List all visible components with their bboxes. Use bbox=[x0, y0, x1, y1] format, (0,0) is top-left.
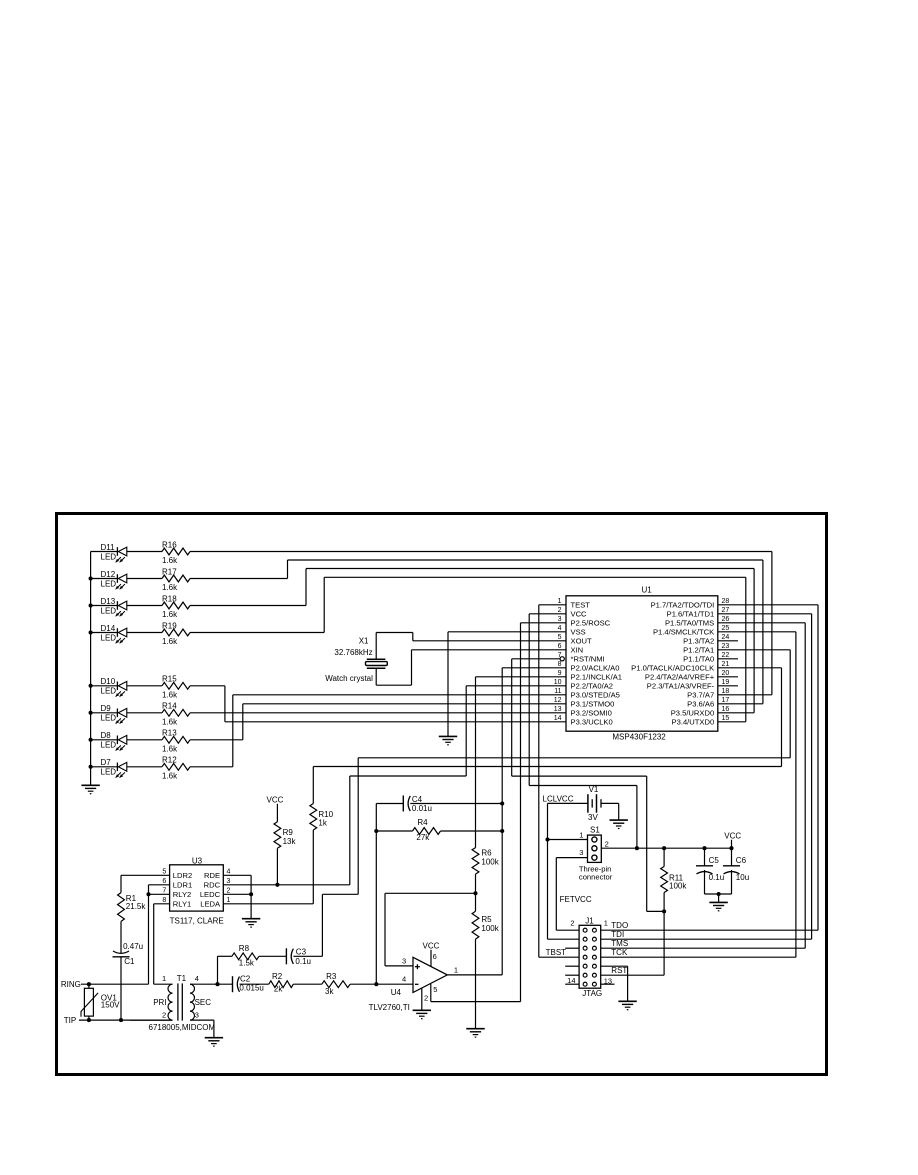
junction LCLVCC S1 pin1 bbox=[545, 837, 549, 841]
pin 22 stub bbox=[718, 658, 738, 660]
svg-text:VSS: VSS bbox=[571, 628, 586, 637]
node LED cathode bus bbox=[90, 552, 92, 786]
resistor R14 1.6k bbox=[127, 702, 190, 727]
svg-text:6: 6 bbox=[433, 952, 437, 961]
resistor R9 13k bbox=[274, 822, 296, 849]
wire RST pin7 to R11/RST net bbox=[512, 659, 664, 912]
svg-text:U1: U1 bbox=[642, 586, 653, 595]
wire caps to ground bbox=[718, 894, 720, 902]
junction C5 C6 ground bbox=[717, 892, 721, 896]
wire D13 row to pin 16 bbox=[190, 569, 754, 713]
svg-text:2: 2 bbox=[227, 888, 231, 895]
svg-text:C1: C1 bbox=[124, 957, 135, 966]
resistor R4 27k bbox=[376, 818, 502, 842]
junction C4 output node bbox=[500, 801, 504, 805]
wire C5 C6 bottoms bbox=[705, 893, 732, 895]
svg-text:1.6k: 1.6k bbox=[162, 772, 178, 781]
svg-text:25: 25 bbox=[722, 625, 730, 632]
junction LDR1 RLY2 bbox=[146, 892, 150, 896]
junction LED bus bbox=[89, 684, 93, 688]
svg-text:8: 8 bbox=[558, 661, 562, 668]
wire D11 row to pin 18 bbox=[190, 552, 772, 695]
svg-text:1.5k: 1.5k bbox=[239, 959, 255, 968]
svg-text:1.6k: 1.6k bbox=[162, 583, 178, 592]
wire LEDA to R10 bbox=[223, 903, 313, 905]
wire SEC top to C2 node bbox=[190, 983, 233, 985]
svg-text:3: 3 bbox=[227, 878, 231, 885]
svg-text:4: 4 bbox=[195, 974, 199, 983]
svg-text:LEDC: LEDC bbox=[200, 890, 221, 899]
junction R6 R5 plus node bbox=[473, 891, 477, 895]
junction R11 top bbox=[662, 846, 666, 850]
wire D9 row to pin 13 bbox=[190, 712, 566, 714]
optocoupler U3 TS117 bbox=[162, 857, 230, 926]
wire P2.0 pin8 to opamp output node bbox=[502, 668, 566, 975]
svg-text:5: 5 bbox=[433, 985, 437, 994]
svg-text:P1.0/TACLK/ADC10CLK: P1.0/TACLK/ADC10CLK bbox=[631, 664, 714, 673]
junction RING OV1 bbox=[87, 982, 91, 986]
capacitor C6 10u bbox=[723, 848, 749, 894]
svg-text:TEST: TEST bbox=[571, 601, 591, 610]
junction C1 TIP bbox=[119, 1018, 123, 1022]
svg-text:R8: R8 bbox=[239, 944, 250, 953]
svg-text:3k: 3k bbox=[325, 987, 334, 996]
svg-text:P2.1/INCLK/A1: P2.1/INCLK/A1 bbox=[571, 673, 623, 682]
ground battery bbox=[610, 820, 628, 828]
svg-text:R13: R13 bbox=[162, 729, 177, 738]
svg-text:13k: 13k bbox=[283, 837, 297, 846]
svg-text:5: 5 bbox=[558, 634, 562, 641]
svg-text:1: 1 bbox=[162, 974, 166, 983]
frame border bbox=[57, 514, 827, 1075]
resistor R6 100k bbox=[472, 848, 500, 875]
svg-text:SEC: SEC bbox=[195, 998, 212, 1007]
ground C5 C6 bbox=[709, 902, 727, 910]
J1 stub left row6 bbox=[565, 974, 579, 976]
svg-text:D13: D13 bbox=[101, 597, 116, 606]
LED D8 bbox=[91, 731, 127, 751]
wire S1 pin1 bbox=[548, 839, 588, 841]
battery V1 3V bbox=[548, 785, 619, 822]
junction LED bus bbox=[89, 711, 93, 715]
wire J1 row5 to ground bbox=[601, 966, 628, 1001]
wire D7 row to pin 11 bbox=[190, 695, 566, 767]
wire VSS pin 4 to ground bbox=[448, 632, 566, 736]
svg-text:R17: R17 bbox=[162, 567, 177, 576]
wire R6 to R5 bbox=[475, 874, 477, 911]
svg-text:27: 27 bbox=[722, 607, 730, 614]
svg-text:1: 1 bbox=[579, 831, 583, 840]
svg-text:PRI: PRI bbox=[153, 998, 166, 1007]
svg-text:27k: 27k bbox=[416, 833, 430, 842]
svg-text:8: 8 bbox=[162, 897, 166, 904]
svg-text:22: 22 bbox=[722, 652, 730, 659]
svg-text:TMS: TMS bbox=[611, 939, 628, 948]
terminal RING bbox=[61, 980, 149, 989]
wire R5 to ground bbox=[475, 939, 477, 1028]
LED D11 bbox=[91, 543, 127, 563]
svg-text:JTAG: JTAG bbox=[582, 989, 602, 998]
svg-text:20: 20 bbox=[722, 670, 730, 677]
svg-text:10u: 10u bbox=[736, 873, 749, 882]
svg-text:P1.6/TA1/TD1: P1.6/TA1/TD1 bbox=[667, 610, 715, 619]
svg-text:R12: R12 bbox=[162, 756, 177, 765]
svg-text:100k: 100k bbox=[481, 857, 499, 866]
label RST bbox=[611, 966, 627, 975]
wire LCLVCC to J1 pin4 bbox=[548, 803, 580, 939]
pin 20 stub bbox=[718, 676, 738, 678]
wire P2.2 pin10 to U3 RDC bbox=[350, 686, 566, 885]
svg-text:P1.1/TA0: P1.1/TA0 bbox=[683, 655, 714, 664]
wire crystal to XOUT pin 5 bbox=[376, 633, 566, 660]
LED D12 bbox=[91, 570, 127, 590]
wire D14 row to pin 15 bbox=[190, 577, 746, 722]
svg-text:LEDA: LEDA bbox=[200, 900, 221, 909]
junction C6 top VCC bbox=[729, 846, 733, 850]
svg-text:D11: D11 bbox=[101, 543, 116, 552]
svg-text:C2: C2 bbox=[240, 974, 251, 983]
capacitor C4 0.01u bbox=[376, 795, 502, 813]
svg-text:3: 3 bbox=[579, 848, 583, 857]
svg-text:TBST: TBST bbox=[546, 948, 567, 957]
svg-text:VCC: VCC bbox=[571, 610, 588, 619]
svg-text:C5: C5 bbox=[709, 856, 720, 865]
svg-text:1.6k: 1.6k bbox=[162, 718, 178, 727]
junction feedback node bbox=[374, 982, 378, 986]
svg-text:R6: R6 bbox=[481, 848, 492, 857]
resistor R1 21.5k bbox=[118, 893, 147, 922]
svg-text:D7: D7 bbox=[101, 758, 112, 767]
svg-text:0.47u: 0.47u bbox=[123, 942, 143, 951]
svg-text:LDR1: LDR1 bbox=[173, 881, 192, 890]
svg-text:0.1u: 0.1u bbox=[295, 957, 311, 966]
J1 stub left row5 bbox=[565, 965, 579, 967]
svg-text:R15: R15 bbox=[162, 675, 177, 684]
wire opamp output bbox=[447, 974, 502, 976]
wire opamp pin5 to ROSC riser bbox=[431, 984, 521, 1002]
svg-text:LED: LED bbox=[101, 714, 117, 723]
resistor R15 1.6k bbox=[127, 675, 190, 700]
svg-text:R18: R18 bbox=[162, 594, 177, 603]
wire R9 to RDC bbox=[276, 848, 278, 885]
svg-text:X1: X1 bbox=[359, 637, 369, 646]
svg-text:6: 6 bbox=[558, 643, 562, 650]
svg-text:P3.2/SOMI0: P3.2/SOMI0 bbox=[571, 709, 612, 718]
resistor R3 3k bbox=[322, 972, 350, 996]
svg-text:D14: D14 bbox=[101, 624, 116, 633]
svg-text:TLV2760,TI: TLV2760,TI bbox=[369, 1003, 410, 1012]
svg-text:P3.3/UCLK0: P3.3/UCLK0 bbox=[571, 718, 613, 727]
label TDI bbox=[611, 930, 624, 939]
op-amp U4 TLV2760 bbox=[369, 952, 458, 1012]
svg-text:VCC: VCC bbox=[267, 796, 284, 805]
junction LED bus bbox=[89, 630, 93, 634]
varistor OV1 150V bbox=[81, 984, 120, 1020]
wire PRI bottom to TIP bbox=[130, 1019, 173, 1021]
svg-text:1: 1 bbox=[454, 966, 458, 975]
svg-text:MSP430F1232: MSP430F1232 bbox=[612, 733, 666, 742]
ground LED bus bbox=[81, 785, 99, 793]
junction LED bus bbox=[89, 576, 93, 580]
svg-text:2: 2 bbox=[558, 607, 562, 614]
resistor R17 1.6k bbox=[127, 567, 190, 592]
label TCK bbox=[611, 948, 628, 957]
svg-text:R5: R5 bbox=[481, 915, 492, 924]
svg-text:26: 26 bbox=[722, 616, 730, 623]
svg-text:R16: R16 bbox=[162, 540, 177, 549]
wire LDR2 to R1 bbox=[121, 875, 170, 892]
svg-text:P1.7/TA2/TDO/TDI: P1.7/TA2/TDO/TDI bbox=[651, 601, 715, 610]
transformer T1 6718005 MIDCOM bbox=[149, 974, 216, 1032]
svg-text:P2.2/TA0/A2: P2.2/TA0/A2 bbox=[571, 682, 614, 691]
crystal X1 32.768kHz bbox=[325, 637, 387, 683]
capacitor C2 0.015u bbox=[233, 974, 269, 992]
svg-text:1: 1 bbox=[604, 918, 608, 927]
svg-text:D12: D12 bbox=[101, 570, 116, 579]
svg-text:11: 11 bbox=[554, 688, 561, 695]
resistor R11 100k bbox=[661, 848, 688, 911]
wire crystal to XIN pin 6 bbox=[376, 650, 566, 685]
svg-text:TDO: TDO bbox=[611, 921, 628, 930]
svg-text:LED: LED bbox=[101, 552, 117, 561]
svg-text:2k: 2k bbox=[274, 985, 283, 994]
svg-text:LED: LED bbox=[101, 741, 117, 750]
svg-text:4: 4 bbox=[558, 625, 562, 632]
svg-text:3: 3 bbox=[558, 616, 562, 623]
wire pin27 TDI to J1 bbox=[601, 614, 812, 939]
svg-text:LDR2: LDR2 bbox=[173, 871, 192, 880]
LED D10 bbox=[91, 677, 127, 697]
J1 stub left row3 bbox=[565, 947, 579, 949]
svg-text:RST: RST bbox=[611, 966, 627, 975]
svg-text:C6: C6 bbox=[736, 856, 747, 865]
svg-text:P2.5/ROSC: P2.5/ROSC bbox=[571, 619, 611, 628]
power VCC opamp bbox=[423, 941, 440, 966]
svg-text:2: 2 bbox=[605, 840, 609, 849]
junction RDE LEDC ground bbox=[249, 892, 253, 896]
svg-text:XOUT: XOUT bbox=[571, 637, 592, 646]
resistor R12 1.6k bbox=[127, 756, 190, 781]
svg-text:*RST/NMI: *RST/NMI bbox=[571, 655, 605, 664]
svg-text:3V: 3V bbox=[588, 813, 598, 822]
label TBST bbox=[546, 948, 567, 957]
svg-text:1.6k: 1.6k bbox=[162, 556, 178, 565]
svg-text:U3: U3 bbox=[192, 857, 203, 866]
resistor R16 1.6k bbox=[127, 540, 190, 565]
svg-text:6: 6 bbox=[162, 878, 166, 885]
svg-text:4: 4 bbox=[402, 975, 406, 984]
svg-text:3: 3 bbox=[402, 957, 406, 966]
svg-text:P1.4/SMCLK/TCK: P1.4/SMCLK/TCK bbox=[653, 628, 714, 637]
LED D9 bbox=[91, 704, 127, 724]
svg-text:TCK: TCK bbox=[611, 948, 628, 957]
power VCC R9 bbox=[267, 796, 284, 822]
resistor R5 100k bbox=[472, 911, 500, 939]
svg-text:100k: 100k bbox=[669, 881, 687, 890]
wire C1 to TIP rail bbox=[120, 957, 122, 1020]
MCU pin 7 inverting bubble bbox=[560, 657, 564, 661]
junction C5 top bbox=[702, 846, 706, 850]
svg-text:U4: U4 bbox=[391, 988, 402, 997]
LED D7 bbox=[91, 758, 127, 778]
svg-text:TS117, CLARE: TS117, CLARE bbox=[170, 916, 224, 925]
svg-text:R4: R4 bbox=[417, 818, 428, 827]
svg-text:1.6k: 1.6k bbox=[162, 691, 178, 700]
wire RLY1 to transformer PRI bbox=[154, 904, 170, 984]
wire pin25 TCK to J1 bbox=[601, 632, 796, 957]
svg-text:LED: LED bbox=[101, 687, 117, 696]
svg-text:P3.6/A6: P3.6/A6 bbox=[687, 700, 714, 709]
svg-text:P2.4/TA2/A4/VREF+: P2.4/TA2/A4/VREF+ bbox=[645, 673, 715, 682]
svg-text:32.768kHz: 32.768kHz bbox=[334, 648, 372, 657]
svg-text:TDI: TDI bbox=[611, 930, 624, 939]
svg-text:21.5k: 21.5k bbox=[126, 902, 147, 911]
wire P2.1 pin9 to R6 top bbox=[476, 677, 567, 848]
svg-text:3: 3 bbox=[195, 1010, 199, 1019]
ground R5 bbox=[466, 1029, 484, 1037]
wire RST row bbox=[601, 974, 664, 976]
wire SEC node to R8 bbox=[218, 956, 232, 984]
wire R3 to opamp minus bbox=[350, 983, 413, 985]
svg-text:1.6k: 1.6k bbox=[162, 745, 178, 754]
svg-text:D9: D9 bbox=[101, 704, 112, 713]
svg-text:17: 17 bbox=[722, 697, 730, 704]
label LCLVCC bbox=[543, 795, 574, 804]
svg-text:RDC: RDC bbox=[204, 881, 221, 890]
svg-text:P2.3/TA1/A3/VREF-: P2.3/TA1/A3/VREF- bbox=[647, 682, 715, 691]
svg-text:RLY1: RLY1 bbox=[173, 900, 191, 909]
label TMS bbox=[611, 939, 628, 948]
svg-text:9: 9 bbox=[558, 670, 562, 677]
svg-text:19: 19 bbox=[722, 679, 730, 686]
resistor R13 1.6k bbox=[127, 729, 190, 754]
svg-text:LED: LED bbox=[101, 768, 117, 777]
power VCC right bbox=[724, 832, 741, 849]
pin 24 stub bbox=[718, 640, 738, 642]
wire VCC pin2 to S1 pin2 node bbox=[529, 614, 637, 848]
svg-text:LED: LED bbox=[101, 606, 117, 615]
svg-text:C3: C3 bbox=[296, 948, 307, 957]
svg-text:10: 10 bbox=[554, 679, 562, 686]
svg-text:4: 4 bbox=[227, 869, 231, 876]
wire R1 to C1 bbox=[120, 921, 122, 953]
svg-text:0.01u: 0.01u bbox=[412, 804, 432, 813]
svg-text:1.6k: 1.6k bbox=[162, 637, 178, 646]
svg-text:21: 21 bbox=[722, 661, 730, 668]
svg-text:23: 23 bbox=[722, 643, 730, 650]
svg-text:P3.1/STMO0: P3.1/STMO0 bbox=[571, 700, 615, 709]
wire P2.5/ROSC pin3 to opamp pin5 bbox=[521, 623, 567, 1002]
ground VSS bbox=[439, 736, 457, 744]
pin 19 stub bbox=[718, 685, 738, 687]
resistor R2 2k bbox=[269, 972, 294, 994]
wire D12 row to pin 17 bbox=[190, 560, 763, 704]
wire plus node to opamp bbox=[385, 893, 476, 966]
svg-text:15: 15 bbox=[722, 715, 730, 722]
svg-text:5: 5 bbox=[162, 869, 166, 876]
wire D8 row to pin 12 bbox=[190, 704, 566, 740]
svg-text:P2.0/ACLK/A0: P2.0/ACLK/A0 bbox=[571, 664, 620, 673]
resistor R10 1k bbox=[310, 767, 334, 904]
svg-text:P3.4/UTXD0: P3.4/UTXD0 bbox=[672, 718, 715, 727]
junction LED bus bbox=[89, 603, 93, 607]
svg-text:18: 18 bbox=[722, 688, 730, 695]
label TDO bbox=[611, 921, 628, 930]
svg-text:2: 2 bbox=[570, 918, 574, 927]
capacitor C5 0.1u bbox=[696, 848, 724, 894]
svg-text:P1.2/TA1: P1.2/TA1 bbox=[683, 646, 714, 655]
wire SEC bottom to ground bbox=[190, 1020, 214, 1037]
junction R11 bottom RST bbox=[662, 909, 666, 913]
ground J1 bbox=[618, 1001, 636, 1009]
junction LED bus bbox=[89, 765, 93, 769]
svg-text:13: 13 bbox=[554, 706, 562, 713]
wire R11 bottom to RST row bbox=[663, 911, 665, 975]
svg-text:P1.3/TA2: P1.3/TA2 bbox=[683, 637, 714, 646]
resistor R19 1.6k bbox=[127, 621, 190, 646]
junction R4 output node bbox=[500, 829, 504, 833]
LED D13 bbox=[91, 597, 127, 617]
svg-text:TIP: TIP bbox=[64, 1016, 76, 1025]
svg-text:2: 2 bbox=[424, 993, 428, 1002]
svg-text:Watch crystal: Watch crystal bbox=[325, 674, 373, 683]
svg-text:150V: 150V bbox=[101, 1000, 120, 1009]
svg-text:28: 28 bbox=[722, 598, 730, 605]
svg-text:R19: R19 bbox=[162, 621, 177, 630]
svg-text:R9: R9 bbox=[283, 828, 294, 837]
svg-text:P1.5/TA0/TMS: P1.5/TA0/TMS bbox=[665, 619, 714, 628]
svg-text:LCLVCC: LCLVCC bbox=[543, 795, 574, 804]
svg-text:0.015u: 0.015u bbox=[239, 984, 263, 993]
svg-text:16: 16 bbox=[722, 706, 730, 713]
svg-text:J1: J1 bbox=[585, 917, 594, 926]
wire RDE LEDC to ground bbox=[223, 875, 251, 918]
svg-text:connector: connector bbox=[579, 873, 613, 882]
wire TEST pin1 to TBST J1 bbox=[539, 605, 579, 957]
svg-text:R3: R3 bbox=[326, 972, 337, 981]
J1 stub right row7 bbox=[601, 983, 615, 985]
svg-text:P3.0/STED/A5: P3.0/STED/A5 bbox=[571, 691, 620, 700]
wire pin26 TMS to J1 bbox=[601, 623, 806, 948]
svg-text:12: 12 bbox=[554, 697, 562, 704]
wire pin21 P1.0 to R10/R6 rail bbox=[313, 668, 781, 767]
resistor R8 1.5k bbox=[232, 944, 259, 968]
wire LDR1/RLY2 to RING bbox=[149, 885, 170, 984]
ground SEC bbox=[205, 1038, 223, 1046]
wire pin23 P1.2 to C3 bbox=[322, 650, 790, 957]
capacitor C1 0.47u bbox=[113, 942, 144, 966]
J1 stub left row7 bbox=[565, 983, 579, 985]
wire S1 pin3 FETVCC to J1 pin2 bbox=[556, 858, 587, 931]
junction C4 R4 left bbox=[374, 829, 378, 833]
wire feedback riser bbox=[375, 804, 377, 985]
junction SEC R8 riser bbox=[215, 982, 219, 986]
connector J1 JTAG bbox=[567, 917, 612, 998]
svg-text:LED: LED bbox=[101, 579, 117, 588]
svg-text:2: 2 bbox=[162, 1010, 166, 1019]
svg-text:D8: D8 bbox=[101, 731, 112, 740]
svg-text:6718005,MIDCOM: 6718005,MIDCOM bbox=[149, 1023, 216, 1032]
svg-text:FETVCC: FETVCC bbox=[560, 895, 592, 904]
svg-text:XIN: XIN bbox=[571, 646, 584, 655]
svg-text:D10: D10 bbox=[101, 677, 116, 686]
label FETVCC bbox=[560, 895, 592, 904]
wire pin28 TDO to J1 bbox=[601, 605, 818, 930]
svg-text:P3.5/URXD0: P3.5/URXD0 bbox=[671, 709, 714, 718]
junction OV1 TIP bbox=[87, 1018, 91, 1022]
svg-text:0.1u: 0.1u bbox=[709, 873, 725, 882]
svg-text:VCC: VCC bbox=[724, 832, 741, 841]
